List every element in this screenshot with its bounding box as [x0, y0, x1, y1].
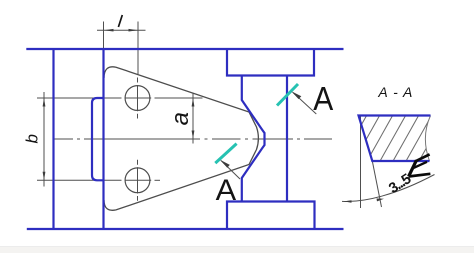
- svg-text:A - A: A - A: [377, 84, 412, 100]
- svg-text:A: A: [313, 80, 333, 117]
- svg-text:a: a: [167, 112, 194, 125]
- svg-text:b: b: [22, 134, 41, 143]
- svg-text:A: A: [216, 174, 237, 207]
